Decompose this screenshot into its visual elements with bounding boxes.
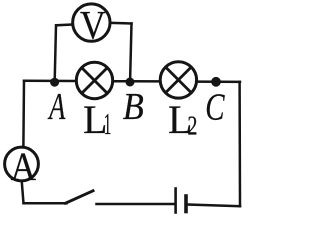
svg-text:A: A [48, 87, 67, 129]
svg-text:C: C [205, 87, 225, 129]
svg-text:2: 2 [187, 112, 197, 141]
svg-text:B: B [123, 85, 144, 127]
svg-text:V: V [80, 4, 106, 49]
svg-text:A: A [11, 145, 37, 190]
svg-text:1: 1 [104, 107, 112, 141]
